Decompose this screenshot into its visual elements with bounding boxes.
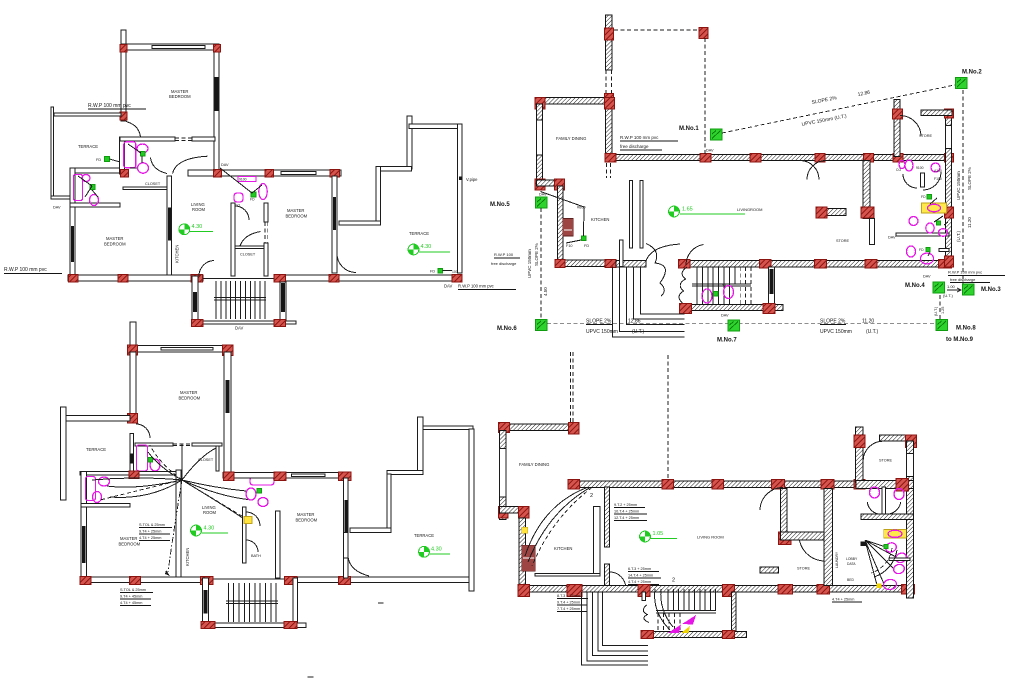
svg-text:STORE: STORE (879, 459, 892, 463)
svg-text:(U.T.): (U.T.) (943, 293, 953, 298)
svg-text:(U.T.): (U.T.) (632, 329, 645, 335)
svg-text:9100: 9100 (916, 166, 924, 170)
svg-text:TERRACE: TERRACE (409, 231, 429, 236)
svg-text:DAV: DAV (923, 275, 931, 279)
svg-text:90: 90 (722, 283, 726, 287)
svg-text:LAUNDRY: LAUNDRY (835, 551, 839, 568)
svg-text:14.T.4 + 25mm: 14.T.4 + 25mm (628, 574, 653, 578)
svg-text:M.No.1: M.No.1 (679, 126, 699, 132)
svg-text:10.T.4 + 25mm: 10.T.4 + 25mm (614, 510, 639, 514)
svg-text:STORE: STORE (836, 239, 849, 243)
svg-text:UPVC 150mm: UPVC 150mm (586, 329, 618, 335)
svg-text:SLOPE 2%: SLOPE 2% (967, 167, 972, 190)
svg-text:DAV: DAV (235, 326, 244, 331)
svg-text:M.No.8: M.No.8 (956, 326, 976, 332)
svg-text:R.W.P 100 mm pvc: R.W.P 100 mm pvc (948, 270, 982, 275)
svg-text:4.T4 + 45mm: 4.T4 + 45mm (120, 601, 142, 605)
svg-text:TERRACE: TERRACE (414, 533, 434, 538)
svg-text:DAV: DAV (706, 149, 714, 153)
svg-text:A100: A100 (934, 169, 942, 173)
svg-text:KITCHEN: KITCHEN (185, 548, 190, 566)
svg-text:free discharge: free discharge (491, 261, 517, 266)
svg-text:free discharge: free discharge (620, 144, 649, 149)
svg-text:1.25: 1.25 (941, 307, 945, 314)
svg-text:4.T4 + 25mm: 4.T4 + 25mm (832, 598, 854, 602)
svg-text:DAV: DAV (221, 163, 229, 167)
svg-text:F100: F100 (934, 177, 942, 181)
svg-text:DAV: DAV (53, 206, 61, 210)
svg-text:6.T.3 + 25mm: 6.T.3 + 25mm (628, 567, 651, 571)
svg-text:S.TOL & 25mm: S.TOL & 25mm (139, 523, 165, 527)
svg-text:MASTER: MASTER (297, 512, 314, 517)
svg-text:SLOPE 2%: SLOPE 2% (534, 243, 539, 266)
svg-text:4.30: 4.30 (192, 224, 203, 230)
svg-text:BATH: BATH (251, 554, 261, 558)
svg-text:MASTER: MASTER (287, 208, 304, 213)
svg-text:FD: FD (96, 158, 101, 162)
svg-text:STORE: STORE (919, 134, 932, 138)
svg-text:M.No.3: M.No.3 (981, 287, 1001, 293)
svg-text:M.No.7: M.No.7 (717, 338, 737, 344)
svg-text:FD: FD (250, 198, 255, 202)
svg-text:DAV: DAV (721, 314, 729, 318)
svg-text:9.T4 + 25mm: 9.T4 + 25mm (139, 530, 161, 534)
svg-text:S.TOL & 25mm: S.TOL & 25mm (120, 588, 146, 592)
svg-text:LIVING: LIVING (737, 207, 750, 212)
svg-text:BEDROOM: BEDROOM (104, 242, 126, 247)
svg-text:UPVC 150mm: UPVC 150mm (820, 329, 852, 335)
svg-text:1.65: 1.65 (682, 207, 693, 213)
svg-text:8.T.3 + 25mm: 8.T.3 + 25mm (557, 594, 580, 598)
svg-text:4.30: 4.30 (421, 244, 432, 250)
svg-text:MASTER: MASTER (180, 390, 197, 395)
svg-text:9100: 9100 (239, 178, 247, 182)
svg-text:SLOPE 2%: SLOPE 2% (820, 319, 846, 325)
svg-text:TERRACE: TERRACE (78, 144, 98, 149)
svg-text:LOBBY: LOBBY (846, 557, 858, 561)
svg-text:FD: FD (919, 248, 924, 252)
svg-text:(U.T.): (U.T.) (956, 231, 961, 242)
svg-text:to M.No.9: to M.No.9 (946, 337, 974, 343)
svg-text:R.W.P 100 mm pvc: R.W.P 100 mm pvc (458, 284, 494, 289)
svg-text:4.30: 4.30 (431, 547, 442, 553)
svg-text:11.20: 11.20 (967, 217, 972, 228)
svg-text:FD: FD (584, 244, 589, 248)
svg-text:CO: CO (896, 168, 901, 172)
svg-text:1.00: 1.00 (947, 284, 956, 289)
svg-text:9.T4 + 45mm: 9.T4 + 45mm (120, 595, 142, 599)
svg-text:11.20: 11.20 (862, 319, 874, 325)
svg-text:SLOPE 2%: SLOPE 2% (586, 319, 612, 325)
svg-text:BEDROOM: BEDROOM (179, 396, 201, 401)
svg-text:R.W.P 100 mm pvc: R.W.P 100 mm pvc (620, 135, 659, 140)
svg-text:F10: F10 (566, 244, 573, 248)
svg-text:9.T.2 + 25mm: 9.T.2 + 25mm (614, 503, 637, 507)
svg-text:V.pipe: V.pipe (466, 177, 478, 182)
svg-text:R.W.P 100 mm pvc: R.W.P 100 mm pvc (88, 103, 131, 109)
svg-text:CLOSET: CLOSET (240, 253, 256, 257)
svg-text:9.T.4 + 25mm: 9.T.4 + 25mm (557, 601, 580, 605)
svg-text:(U.T.): (U.T.) (866, 329, 879, 335)
svg-text:BEDROOM: BEDROOM (169, 94, 191, 99)
svg-text:KITCHEN: KITCHEN (591, 217, 609, 222)
svg-text:FAMILY DINING: FAMILY DINING (519, 462, 549, 467)
svg-text:(U.T.): (U.T.) (934, 306, 938, 316)
svg-text:DATA: DATA (847, 562, 856, 566)
svg-text:M.No.5: M.No.5 (490, 202, 510, 208)
svg-text:BED: BED (847, 578, 855, 582)
svg-text:M.No.6: M.No.6 (497, 326, 517, 332)
svg-text:KITCHEN: KITCHEN (554, 546, 572, 551)
svg-text:BEDROOM: BEDROOM (296, 518, 318, 523)
svg-text:R.W.P 100: R.W.P 100 (494, 252, 514, 257)
svg-text:UPVC 150mm: UPVC 150mm (956, 171, 961, 200)
svg-text:STORE: STORE (797, 567, 810, 571)
svg-text:DAV: DAV (444, 284, 453, 289)
svg-text:12.86: 12.86 (628, 319, 641, 325)
svg-text:MASTER: MASTER (106, 236, 123, 241)
svg-text:FD: FD (430, 270, 435, 274)
svg-text:ROOM: ROOM (203, 510, 217, 515)
svg-text:7.T.4 + 25mm: 7.T.4 + 25mm (557, 607, 580, 611)
svg-text:ROOM: ROOM (192, 207, 206, 212)
svg-text:LIVING ROOM: LIVING ROOM (697, 535, 724, 540)
svg-text:4.50: 4.50 (543, 287, 548, 296)
svg-text:M.No.4: M.No.4 (905, 283, 925, 289)
svg-text:12.T.4 + 25mm: 12.T.4 + 25mm (614, 516, 639, 520)
svg-text:MASTER: MASTER (120, 536, 137, 541)
svg-text:4.T.4 + 25mm: 4.T.4 + 25mm (628, 580, 651, 584)
svg-text:TERRACE: TERRACE (86, 447, 106, 452)
svg-text:2: 2 (672, 578, 675, 584)
svg-text:2: 2 (590, 493, 593, 499)
svg-text:BEDROOM: BEDROOM (119, 542, 141, 547)
svg-text:free discharge: free discharge (950, 277, 976, 282)
svg-text:1.05: 1.05 (653, 531, 664, 537)
svg-text:DAV: DAV (888, 236, 896, 240)
svg-text:4.30: 4.30 (204, 526, 215, 532)
svg-text:R.W.P 100 mm pvc: R.W.P 100 mm pvc (4, 267, 47, 273)
svg-text:KITCHEN: KITCHEN (175, 245, 180, 263)
svg-text:UPVC 150mm: UPVC 150mm (527, 249, 532, 278)
svg-text:100: 100 (452, 270, 458, 274)
svg-text:ROOM: ROOM (750, 207, 762, 212)
svg-text:CLOSET: CLOSET (145, 182, 161, 186)
svg-text:M.No.2: M.No.2 (962, 70, 982, 76)
svg-text:FAMILY DINING: FAMILY DINING (556, 136, 586, 141)
svg-text:BEDROOM: BEDROOM (286, 214, 308, 219)
svg-text:FD: FD (921, 195, 926, 199)
svg-text:CO: CO (235, 204, 240, 208)
svg-text:4.T4 + 25mm: 4.T4 + 25mm (139, 536, 161, 540)
